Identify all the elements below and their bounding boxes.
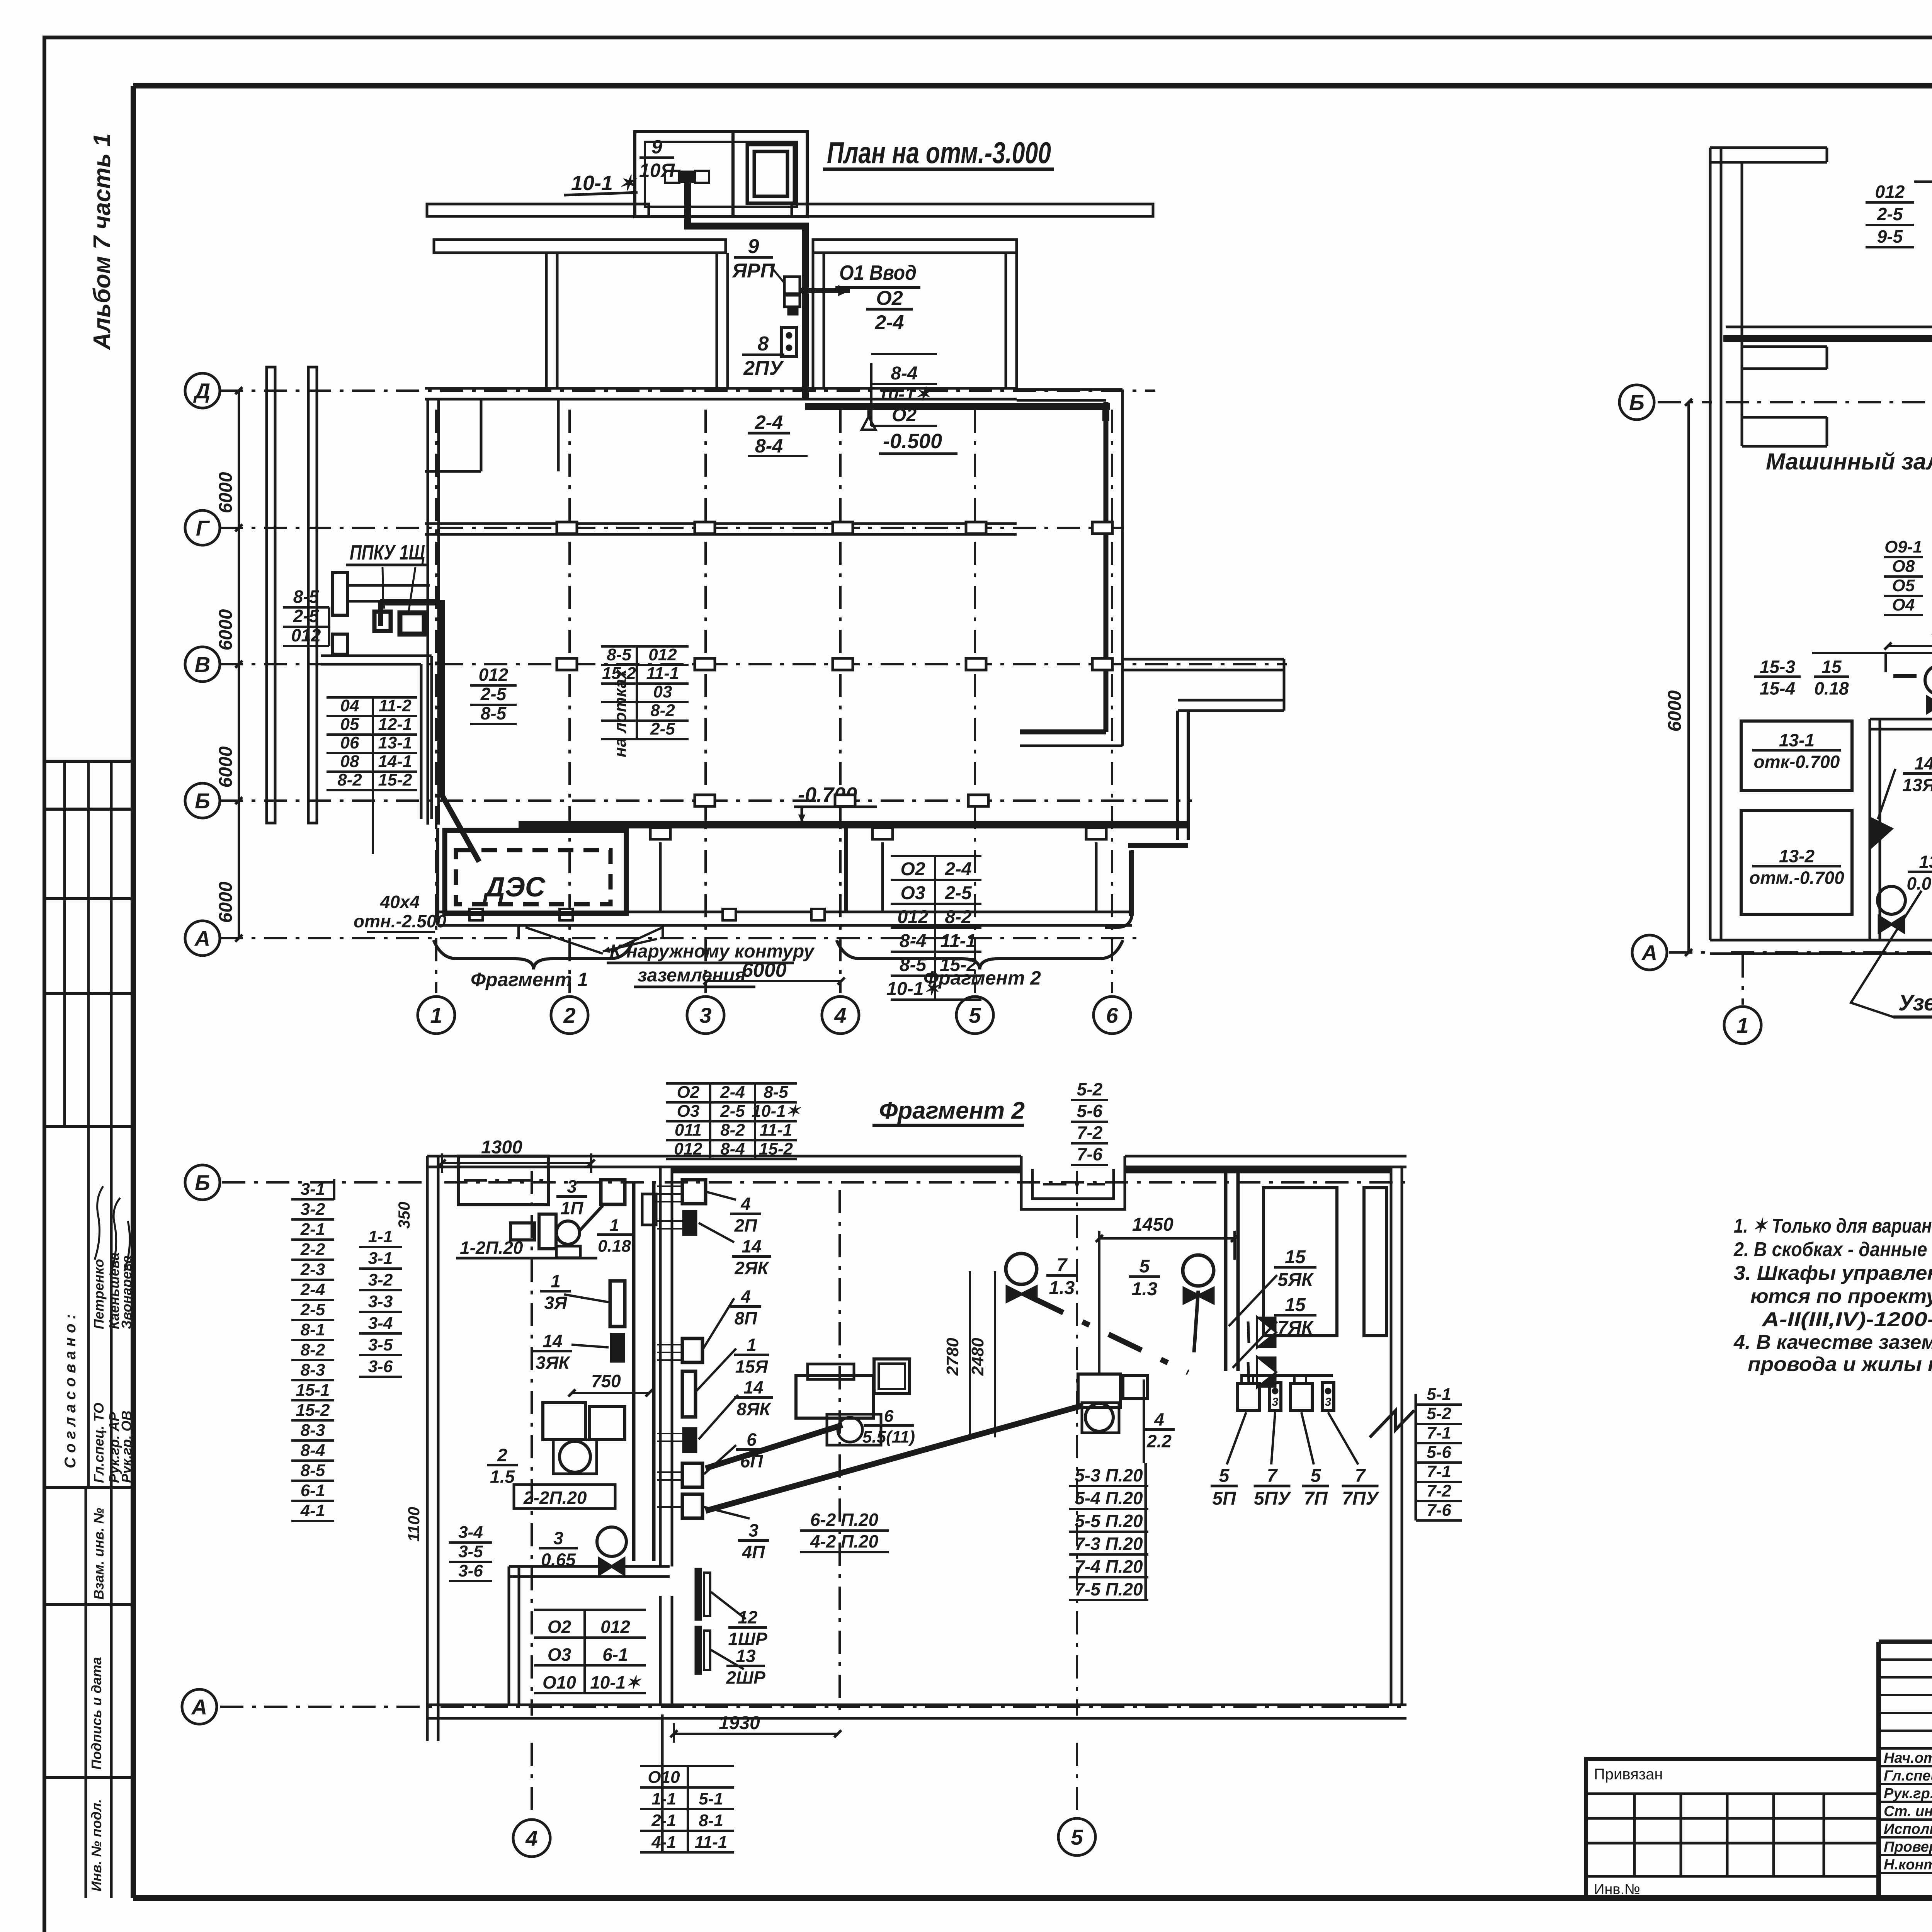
svg-text:1: 1 — [610, 1216, 619, 1235]
svg-text:1.5: 1.5 — [490, 1467, 515, 1487]
svg-text:6-2 П.20: 6-2 П.20 — [810, 1510, 879, 1530]
svg-text:5-1: 5-1 — [1427, 1385, 1451, 1404]
svg-text:Б: Б — [195, 1170, 210, 1195]
svg-text:13: 13 — [736, 1646, 756, 1666]
svg-text:3: 3 — [1325, 1396, 1332, 1408]
svg-text:15-1: 15-1 — [296, 1381, 330, 1400]
svg-text:4: 4 — [1154, 1409, 1164, 1429]
svg-text:15-4: 15-4 — [1760, 679, 1795, 699]
svg-text:3-5: 3-5 — [368, 1335, 393, 1354]
svg-text:5-2: 5-2 — [1427, 1404, 1451, 1423]
svg-text:1П: 1П — [561, 1198, 584, 1218]
svg-text:9: 9 — [651, 136, 662, 158]
svg-text:3-1: 3-1 — [368, 1249, 393, 1268]
svg-text:8-5: 8-5 — [293, 587, 320, 607]
svg-text:ППКУ 1Щ: ППКУ 1Щ — [350, 541, 425, 564]
svg-text:Б: Б — [1629, 390, 1645, 415]
svg-text:отк-0.700: отк-0.700 — [1754, 752, 1840, 772]
svg-text:7-1: 7-1 — [1427, 1462, 1451, 1481]
svg-text:7-4 П.20: 7-4 П.20 — [1075, 1556, 1143, 1577]
svg-text:3-1: 3-1 — [301, 1180, 325, 1199]
svg-text:15Я: 15Я — [735, 1357, 769, 1377]
svg-text:3: 3 — [567, 1176, 577, 1196]
svg-text:13-2: 13-2 — [1779, 846, 1815, 866]
svg-text:5П: 5П — [1212, 1488, 1236, 1509]
svg-text:О1 Ввод: О1 Ввод — [839, 261, 917, 284]
svg-text:14: 14 — [742, 1236, 761, 1256]
svg-text:15: 15 — [1285, 1247, 1306, 1267]
svg-text:4-1: 4-1 — [651, 1833, 676, 1852]
svg-text:9: 9 — [748, 235, 759, 258]
svg-text:А-II(III,IV)-1200-314.86 Аль: А-II(III,IV)-1200-314.86 Альбом 6 — [1761, 1308, 1932, 1331]
svg-text:15: 15 — [1821, 656, 1842, 677]
svg-text:Фрагмент 2: Фрагмент 2 — [923, 967, 1041, 989]
svg-text:2-4: 2-4 — [944, 859, 971, 879]
svg-text:10-1✶: 10-1✶ — [590, 1672, 642, 1692]
svg-text:7: 7 — [1355, 1466, 1366, 1486]
svg-text:3: 3 — [748, 1520, 759, 1540]
svg-text:5ПУ: 5ПУ — [1254, 1488, 1291, 1509]
svg-text:11-2: 11-2 — [379, 696, 412, 715]
svg-text:10-1 ✶: 10-1 ✶ — [571, 172, 638, 195]
svg-text:2-4: 2-4 — [300, 1280, 325, 1299]
svg-text:8-4: 8-4 — [755, 435, 783, 457]
svg-text:План на отм.-3.000: План на отм.-3.000 — [827, 136, 1051, 170]
svg-text:1-1: 1-1 — [651, 1789, 676, 1808]
svg-text:2780: 2780 — [943, 1338, 962, 1376]
svg-text:8-3: 8-3 — [301, 1361, 325, 1379]
svg-text:О2: О2 — [900, 859, 925, 879]
svg-text:05: 05 — [340, 715, 359, 734]
svg-text:8ЯК: 8ЯК — [736, 1399, 771, 1419]
svg-text:А: А — [191, 1695, 207, 1719]
svg-text:7-5 П.20: 7-5 П.20 — [1075, 1579, 1143, 1599]
svg-text:2-4: 2-4 — [874, 311, 904, 334]
svg-text:8-5: 8-5 — [301, 1461, 325, 1480]
svg-text:0.18: 0.18 — [1814, 679, 1849, 699]
svg-text:6000: 6000 — [216, 881, 236, 923]
svg-text:7П: 7П — [1304, 1488, 1328, 1509]
svg-text:О10: О10 — [648, 1768, 680, 1787]
svg-text:0.18: 0.18 — [598, 1236, 631, 1255]
svg-text:О2: О2 — [876, 287, 903, 310]
svg-text:С о г л а с о в а н о :: С о г л а с о в а н о : — [62, 1314, 79, 1468]
svg-text:2-1: 2-1 — [651, 1811, 676, 1830]
svg-text:7-1: 7-1 — [1427, 1423, 1451, 1442]
svg-text:3-6: 3-6 — [458, 1561, 483, 1580]
svg-text:Н.контр.: Н.контр. — [1884, 1857, 1932, 1873]
svg-text:13: 13 — [1919, 852, 1932, 872]
svg-text:2.2: 2.2 — [1146, 1431, 1172, 1451]
svg-text:2-5: 2-5 — [480, 684, 507, 704]
svg-text:4: 4 — [740, 1286, 751, 1306]
svg-text:7-6: 7-6 — [1427, 1501, 1451, 1520]
svg-text:8-1: 8-1 — [301, 1320, 325, 1339]
svg-text:11-1: 11-1 — [760, 1121, 793, 1139]
svg-text:О2: О2 — [548, 1617, 571, 1637]
svg-text:4П: 4П — [742, 1542, 765, 1562]
svg-text:6000: 6000 — [216, 472, 236, 513]
svg-text:О5: О5 — [1892, 576, 1915, 595]
svg-text:13-1: 13-1 — [378, 733, 412, 752]
svg-text:2-5: 2-5 — [1877, 204, 1903, 224]
svg-text:5-1: 5-1 — [699, 1789, 723, 1808]
svg-text:Гл.спец.: Гл.спец. — [1884, 1768, 1932, 1784]
svg-text:5-6: 5-6 — [1427, 1443, 1451, 1462]
svg-text:Подпись и дата: Подпись и дата — [88, 1657, 104, 1770]
svg-text:8-2: 8-2 — [650, 701, 675, 720]
svg-text:1: 1 — [1736, 1013, 1748, 1037]
svg-text:4. В качестве заземляющих: 4. В качестве заземляющих проводников ис… — [1733, 1331, 1932, 1354]
svg-text:08: 08 — [340, 752, 359, 771]
svg-text:Машинный зал ДЭС: Машинный зал ДЭС — [1766, 449, 1932, 474]
svg-text:04: 04 — [340, 696, 359, 715]
svg-text:15-3: 15-3 — [1760, 656, 1795, 677]
svg-text:5-3 П.20: 5-3 П.20 — [1075, 1465, 1143, 1485]
svg-text:4: 4 — [740, 1194, 751, 1214]
svg-text:15-2: 15-2 — [296, 1401, 330, 1420]
svg-text:ЯРП: ЯРП — [731, 260, 776, 282]
svg-text:6000: 6000 — [216, 746, 236, 787]
svg-text:Петренко: Петренко — [91, 1259, 107, 1329]
svg-text:Инв.№: Инв.№ — [1594, 1881, 1640, 1898]
svg-text:7-2: 7-2 — [1427, 1481, 1451, 1500]
svg-text:2-3: 2-3 — [300, 1260, 325, 1279]
svg-text:1100: 1100 — [405, 1507, 423, 1542]
svg-text:3-3: 3-3 — [368, 1292, 393, 1311]
svg-text:отн.-2.500: отн.-2.500 — [354, 911, 446, 931]
svg-text:3-4: 3-4 — [458, 1523, 483, 1542]
svg-text:13ЯК: 13ЯК — [1903, 775, 1932, 795]
svg-text:012: 012 — [648, 645, 677, 664]
svg-text:3-2: 3-2 — [301, 1200, 325, 1219]
svg-text:Привязан: Привязан — [1594, 1766, 1663, 1783]
svg-text:2. В скобках - данные для: 2. В скобках - данные для климатической … — [1733, 1238, 1932, 1261]
svg-text:012: 012 — [600, 1617, 630, 1637]
svg-text:Провер.: Провер. — [1884, 1839, 1932, 1855]
svg-text:1-2П.20: 1-2П.20 — [460, 1238, 523, 1258]
svg-text:3: 3 — [553, 1528, 563, 1548]
svg-text:1: 1 — [551, 1271, 561, 1291]
svg-text:5-5 П.20: 5-5 П.20 — [1075, 1511, 1143, 1531]
svg-text:11-1: 11-1 — [646, 664, 679, 683]
svg-text:О4: О4 — [1892, 595, 1915, 614]
svg-text:15: 15 — [1285, 1295, 1306, 1315]
svg-text:заземления: заземления — [638, 965, 746, 986]
svg-text:отм.-0.700: отм.-0.700 — [1749, 868, 1844, 888]
svg-text:15-2: 15-2 — [378, 770, 412, 789]
svg-text:11-1: 11-1 — [695, 1833, 728, 1852]
svg-text:Б: Б — [195, 789, 210, 813]
svg-text:1.3: 1.3 — [1132, 1279, 1158, 1299]
svg-text:О9-1: О9-1 — [1884, 537, 1922, 556]
svg-text:10-1✶: 10-1✶ — [752, 1102, 801, 1121]
svg-text:Рук.гр. ОВ: Рук.гр. ОВ — [119, 1411, 134, 1483]
svg-text:1300: 1300 — [481, 1137, 522, 1158]
svg-text:6: 6 — [747, 1429, 757, 1449]
svg-text:8-2: 8-2 — [945, 907, 972, 927]
svg-text:8-4: 8-4 — [900, 931, 926, 951]
svg-text:012: 012 — [479, 665, 509, 685]
svg-text:5-6: 5-6 — [1077, 1101, 1103, 1121]
svg-text:7-2: 7-2 — [1077, 1122, 1103, 1143]
svg-text:2: 2 — [497, 1445, 507, 1465]
svg-text:Альбом 7 часть 1: Альбом 7 часть 1 — [89, 133, 116, 350]
svg-text:Инв. № подл.: Инв. № подл. — [88, 1799, 104, 1891]
svg-text:3: 3 — [1272, 1396, 1279, 1408]
svg-text:7-3 П.20: 7-3 П.20 — [1075, 1534, 1143, 1554]
svg-text:Взам. инв. №: Взам. инв. № — [91, 1508, 107, 1600]
svg-text:9-5: 9-5 — [1877, 226, 1903, 247]
svg-text:3. Шкафы управления 1Щ: 3. Шкафы управления 1Щ и ППКУ выполняютс… — [1734, 1262, 1932, 1284]
svg-text:2-5: 2-5 — [300, 1300, 325, 1319]
svg-text:Ст. инж.: Ст. инж. — [1884, 1803, 1932, 1820]
svg-text:3ЯК: 3ЯК — [536, 1353, 570, 1373]
svg-text:ДЭС: ДЭС — [483, 872, 546, 903]
svg-text:6: 6 — [884, 1407, 894, 1426]
svg-text:5: 5 — [1139, 1256, 1150, 1277]
svg-text:750: 750 — [591, 1371, 621, 1391]
svg-text:8-1: 8-1 — [699, 1811, 723, 1830]
svg-text:5: 5 — [969, 1003, 981, 1027]
svg-text:О2: О2 — [677, 1083, 700, 1102]
svg-text:2480: 2480 — [968, 1338, 987, 1376]
svg-text:Фрагмент 2: Фрагмент 2 — [879, 1097, 1025, 1124]
svg-text:2-2: 2-2 — [300, 1240, 325, 1259]
svg-text:1.3: 1.3 — [1049, 1278, 1075, 1298]
svg-text:8-2: 8-2 — [720, 1121, 745, 1139]
svg-text:5-2: 5-2 — [1077, 1079, 1103, 1099]
svg-text:2-5: 2-5 — [293, 606, 320, 626]
svg-text:350: 350 — [395, 1202, 413, 1229]
svg-text:Узел охлаждения: Узел охлаждения — [1898, 990, 1932, 1015]
svg-text:13-1: 13-1 — [1779, 730, 1815, 750]
svg-text:6000: 6000 — [1665, 690, 1685, 731]
svg-text:6: 6 — [1106, 1003, 1118, 1027]
svg-text:1930: 1930 — [719, 1713, 760, 1733]
svg-text:Д: Д — [193, 379, 210, 403]
svg-text:5-4 П.20: 5-4 П.20 — [1075, 1488, 1143, 1508]
svg-text:О8: О8 — [1892, 557, 1915, 576]
svg-text:8-5: 8-5 — [764, 1083, 788, 1102]
svg-text:8-4: 8-4 — [301, 1441, 325, 1460]
svg-text:О3: О3 — [548, 1645, 571, 1665]
svg-text:2-4: 2-4 — [720, 1083, 745, 1102]
svg-text:Рук.гр.: Рук.гр. — [1884, 1786, 1932, 1802]
svg-text:В: В — [195, 652, 210, 677]
svg-text:8-5: 8-5 — [607, 645, 631, 664]
svg-text:3Я: 3Я — [544, 1293, 568, 1313]
svg-text:5.5(11): 5.5(11) — [862, 1427, 915, 1446]
svg-text:2-5: 2-5 — [944, 883, 972, 903]
svg-text:14: 14 — [543, 1331, 562, 1351]
svg-text:3-4: 3-4 — [368, 1314, 393, 1333]
svg-text:ются по проекту ГПИ „Спецав: ются по проекту ГПИ „Спецавтоматика” г. … — [1750, 1285, 1932, 1308]
svg-text:Гл.спец. ТО: Гл.спец. ТО — [91, 1403, 107, 1483]
svg-text:Исполн.: Исполн. — [1884, 1821, 1932, 1837]
svg-text:12-1: 12-1 — [378, 715, 412, 734]
svg-text:8-4: 8-4 — [891, 363, 917, 384]
svg-text:1: 1 — [430, 1003, 442, 1027]
svg-text:О10: О10 — [543, 1672, 576, 1692]
svg-text:8-3: 8-3 — [301, 1421, 325, 1440]
svg-text:5ЯК: 5ЯК — [1277, 1270, 1314, 1290]
svg-text:А: А — [194, 926, 210, 951]
svg-text:4: 4 — [525, 1826, 537, 1850]
svg-text:6000: 6000 — [216, 609, 236, 650]
svg-text:2П: 2П — [734, 1216, 758, 1236]
svg-text:5: 5 — [1219, 1466, 1230, 1486]
svg-text:2ПУ: 2ПУ — [743, 357, 784, 379]
svg-text:О3: О3 — [900, 883, 925, 903]
svg-text:Нач.отд.: Нач.отд. — [1884, 1750, 1932, 1766]
svg-text:8П: 8П — [735, 1308, 758, 1328]
svg-text:14-1: 14-1 — [378, 752, 412, 771]
svg-text:2-5: 2-5 — [650, 719, 675, 738]
svg-text:8-2: 8-2 — [337, 770, 362, 789]
svg-text:4: 4 — [834, 1003, 846, 1027]
svg-text:2-4: 2-4 — [755, 412, 783, 433]
svg-text:012: 012 — [1875, 182, 1905, 202]
svg-text:14: 14 — [1914, 753, 1932, 773]
svg-text:Г: Г — [196, 516, 210, 540]
svg-text:2-5: 2-5 — [720, 1102, 745, 1121]
svg-text:провода и жилы кабелей и: провода и жилы кабелей и контур заземлен… — [1748, 1353, 1932, 1376]
svg-text:7: 7 — [1057, 1255, 1068, 1276]
svg-text:О3: О3 — [677, 1102, 700, 1121]
svg-text:8-2: 8-2 — [301, 1340, 325, 1359]
svg-text:06: 06 — [340, 733, 359, 752]
svg-text:8: 8 — [758, 333, 769, 355]
svg-text:3-2: 3-2 — [368, 1270, 393, 1289]
svg-text:011: 011 — [675, 1121, 702, 1139]
svg-text:012: 012 — [897, 907, 928, 927]
svg-text:6-1: 6-1 — [602, 1645, 628, 1665]
svg-text:-0.500: -0.500 — [883, 430, 942, 453]
svg-text:3-5: 3-5 — [458, 1542, 483, 1561]
svg-text:40х4: 40х4 — [380, 892, 420, 912]
svg-text:1-1: 1-1 — [368, 1227, 393, 1246]
svg-text:2-1: 2-1 — [300, 1220, 325, 1239]
svg-text:6000: 6000 — [742, 959, 787, 981]
svg-text:3-6: 3-6 — [368, 1357, 393, 1376]
svg-text:2-2П.20: 2-2П.20 — [523, 1488, 587, 1508]
svg-text:2ШР: 2ШР — [726, 1668, 765, 1688]
svg-text:8-5: 8-5 — [481, 703, 507, 723]
svg-text:на лотках: на лотках — [611, 669, 630, 757]
svg-text:6-1: 6-1 — [301, 1481, 325, 1500]
svg-text:10Я: 10Я — [639, 160, 675, 181]
svg-text:4-2 П.20: 4-2 П.20 — [810, 1531, 879, 1551]
svg-text:2: 2 — [563, 1003, 575, 1027]
svg-text:11-1: 11-1 — [940, 931, 976, 951]
svg-text:А: А — [1641, 940, 1657, 965]
svg-text:0.065: 0.065 — [1906, 874, 1932, 894]
svg-text:5: 5 — [1311, 1466, 1321, 1486]
svg-text:7-6: 7-6 — [1077, 1144, 1103, 1164]
svg-text:1450: 1450 — [1132, 1214, 1173, 1235]
svg-text:2ЯК: 2ЯК — [734, 1258, 769, 1278]
svg-text:3: 3 — [699, 1003, 711, 1027]
svg-text:7ПУ: 7ПУ — [1342, 1488, 1379, 1509]
svg-text:5: 5 — [1071, 1825, 1083, 1849]
svg-text:03: 03 — [653, 682, 672, 701]
svg-text:12: 12 — [738, 1607, 758, 1627]
svg-text:Фрагмент 1: Фрагмент 1 — [471, 969, 588, 990]
svg-text:1. ✶ Только для варианта с: 1. ✶ Только для варианта с грузовым лифт… — [1734, 1215, 1932, 1237]
svg-text:14: 14 — [743, 1377, 763, 1397]
svg-text:1: 1 — [747, 1335, 757, 1355]
svg-text:4-1: 4-1 — [300, 1501, 325, 1520]
svg-text:7: 7 — [1267, 1466, 1278, 1486]
